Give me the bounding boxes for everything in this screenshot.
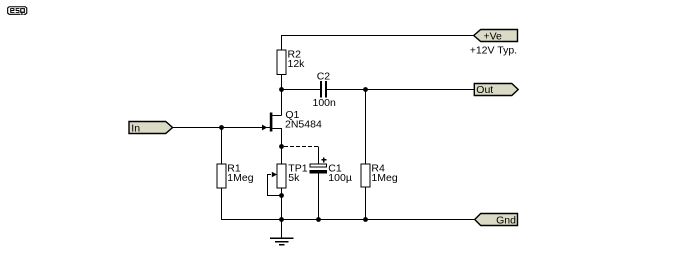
wire R4 top [365, 90, 367, 165]
tag Out [474, 84, 518, 97]
svg-text:Out: Out [476, 84, 493, 96]
wire Q1 drain lead [272, 115, 281, 117]
wire Q1 source lead [272, 129, 281, 165]
wire TP1 bottom [281, 188, 283, 220]
svg-text:C2: C2 [317, 70, 331, 82]
svg-text:100µ: 100µ [328, 172, 352, 184]
wire +Ve rail [282, 36, 475, 51]
resistor R4 [361, 164, 370, 187]
wire R1 top [221, 128, 223, 165]
wire ground stem [281, 220, 283, 239]
wire R1 bottom to ground rail [222, 188, 475, 220]
svg-text:+12V Typ.: +12V Typ. [470, 45, 517, 57]
node wiper junction [279, 193, 284, 198]
wire input [172, 127, 270, 129]
resistor R2 [277, 50, 286, 75]
capacitor C2 [320, 81, 327, 98]
wire R2 bottom to drain [281, 75, 283, 116]
wire R4 bottom [365, 187, 367, 220]
node ground rail TP1 junction [279, 217, 284, 222]
wire out line left [282, 89, 321, 91]
node gate/R1 junction [219, 125, 224, 130]
capacitor C1 [310, 164, 327, 173]
node drain/C2 junction [279, 87, 284, 92]
svg-text:1Meg: 1Meg [371, 172, 397, 184]
svg-text:2N5484: 2N5484 [285, 119, 322, 131]
node ground rail C1 junction [316, 217, 321, 222]
wire out line right [327, 89, 475, 91]
ESP logo [7, 6, 27, 15]
svg-text:+Ve: +Ve [484, 30, 503, 42]
polarity plus of C1 [321, 157, 326, 162]
node ground rail R4 junction [363, 217, 368, 222]
wire C1 bottom [318, 173, 320, 220]
wire TP1 wiper loop [267, 175, 281, 196]
trimpot TP1 [272, 164, 286, 188]
tag +Ve [474, 30, 518, 43]
node out/R4 junction [363, 87, 368, 92]
tag In [129, 122, 173, 135]
svg-text:In: In [131, 123, 140, 135]
svg-text:100n: 100n [313, 97, 337, 109]
wire dashed bias link [284, 146, 319, 148]
node source/TP1 junction [279, 144, 284, 149]
tag Gnd [475, 214, 518, 227]
svg-text:Gnd: Gnd [496, 215, 516, 227]
transistor Q1 [262, 113, 272, 132]
wire C1 drop [318, 147, 320, 165]
svg-text:12k: 12k [288, 58, 306, 70]
svg-text:1Meg: 1Meg [227, 172, 253, 184]
svg-text:5k: 5k [288, 172, 300, 184]
ground [270, 238, 294, 245]
resistor R1 [217, 164, 226, 188]
